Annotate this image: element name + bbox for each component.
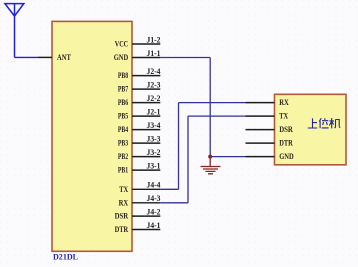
svg-text:J4-2: J4-2 [147,208,161,217]
host pin DSR stub [246,129,275,131]
ground symbol [201,157,221,174]
svg-text:J1-2: J1-2 [147,35,161,44]
wire TX to host RX vertical [178,103,180,190]
svg-text:ANT: ANT [57,53,71,62]
wire antenna to ANT pin [15,56,39,58]
pin PB3 stub [132,142,160,144]
svg-text:DSR: DSR [279,125,293,134]
pin DTR stub [132,229,160,231]
svg-text:RX: RX [279,98,289,107]
svg-text:DSR: DSR [115,212,129,221]
svg-text:PB3: PB3 [118,139,128,148]
pin PB2 stub [132,156,160,158]
svg-text:J3-3: J3-3 [147,135,161,144]
svg-text:PB7: PB7 [118,85,128,94]
wire GND net to host GND [212,156,246,158]
junction node GND net [208,155,212,159]
svg-text:TX: TX [279,112,288,121]
pin ANT stub [38,56,52,58]
pin TX stub [132,188,160,190]
label 上位机 glyph 机 [329,118,340,128]
svg-text:J3-1: J3-1 [147,162,161,171]
svg-text:RX: RX [119,198,129,207]
host pin DTR stub [246,142,275,144]
svg-text:PB2: PB2 [118,152,128,161]
antenna E1 [5,4,24,58]
pin RX stub [132,202,160,204]
host pin TX stub [246,115,275,117]
svg-text:J2-1: J2-1 [147,108,161,117]
svg-text:PB8: PB8 [118,71,128,80]
svg-text:J2-2: J2-2 [147,94,161,103]
label 上位机 glyph 位 [319,118,328,128]
svg-text:GND: GND [279,152,294,161]
svg-text:TX: TX [119,185,128,194]
pin PB1 stub [132,169,160,171]
host pin GND stub [246,156,275,158]
pin PB5 stub [132,115,160,117]
svg-text:J3-2: J3-2 [147,148,161,157]
svg-text:DTR: DTR [279,139,293,148]
wire RX to host TX horizontal lower [160,202,188,204]
label 上位机 glyph 上 [308,118,318,128]
pin PB4 stub [132,129,160,131]
wire TX to host RX horizontal upper [179,102,246,104]
svg-text:J1-1: J1-1 [147,49,161,58]
pin VCC stub [132,43,160,45]
svg-text:J2-3: J2-3 [147,81,161,90]
pin PB6 stub [132,102,160,104]
svg-text:J4-3: J4-3 [147,194,161,203]
wire RX to host TX vertical [187,116,189,203]
wire GND net horizontal [160,57,210,59]
wire GND net vertical [209,58,211,157]
module U1 D21DL body [52,21,132,251]
pin GND stub [132,57,160,59]
pin DSR stub [132,215,160,217]
svg-text:J2-4: J2-4 [147,67,161,76]
host pin RX stub [246,102,275,104]
pin PB8 stub [132,75,160,77]
wire RX to host TX horizontal upper [188,115,246,117]
svg-text:GND: GND [114,53,129,62]
svg-text:VCC: VCC [115,40,129,49]
wire TX to host RX horizontal lower [160,188,178,190]
svg-text:D21DL: D21DL [53,253,78,262]
svg-text:PB4: PB4 [118,125,128,134]
pin PB7 stub [132,88,160,90]
svg-text:DTR: DTR [115,225,129,234]
svg-text:PB1: PB1 [118,166,128,175]
host box 上位机 body [275,94,347,165]
svg-text:PB6: PB6 [118,98,128,107]
svg-text:PB5: PB5 [118,112,128,121]
svg-text:J3-4: J3-4 [147,121,161,130]
svg-text:J4-1: J4-1 [147,221,161,230]
svg-text:J4-4: J4-4 [147,181,161,190]
